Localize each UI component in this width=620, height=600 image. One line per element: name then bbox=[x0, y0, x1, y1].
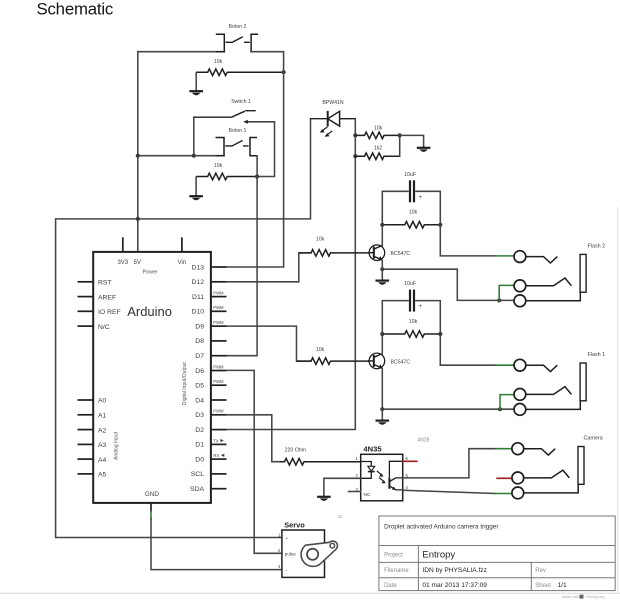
svg-text:1k2: 1k2 bbox=[374, 146, 382, 152]
svg-text:D2: D2 bbox=[195, 427, 204, 434]
wire Q1 emitter down bbox=[381, 261, 383, 270]
frame right line bbox=[617, 207, 619, 593]
wire Q1 collector bbox=[381, 225, 383, 246]
resistor R8 10k Q2 base bbox=[297, 347, 370, 364]
svg-text:4N28: 4N28 bbox=[418, 438, 430, 444]
svg-text:-: - bbox=[286, 568, 288, 574]
svg-text:A1: A1 bbox=[98, 413, 107, 420]
wire green Flash1 ring bbox=[500, 395, 514, 410]
wire divider to ground bbox=[400, 135, 424, 146]
svg-text:+: + bbox=[419, 195, 423, 201]
wire D3 to R9 bbox=[227, 415, 281, 462]
wire pin3 stub bbox=[349, 491, 361, 493]
junction Flash2 ring-sleeve bbox=[497, 298, 501, 302]
svg-text:D4: D4 bbox=[195, 397, 204, 404]
svg-text:D10: D10 bbox=[192, 309, 205, 316]
svg-text:D6: D6 bbox=[195, 368, 204, 375]
wire 5V rail to Switch1/Boton1 bbox=[138, 155, 224, 157]
resistor R1 10k Boton2 pulldown bbox=[196, 59, 283, 76]
svg-text:A4: A4 bbox=[98, 457, 107, 464]
wire opto pin2 to ground bbox=[324, 478, 361, 495]
svg-text:RX: RX bbox=[213, 453, 219, 458]
svg-text:D9: D9 bbox=[195, 323, 204, 330]
svg-text:PWM: PWM bbox=[213, 379, 224, 384]
wire C1 right bbox=[416, 191, 440, 256]
svg-text:10k: 10k bbox=[316, 347, 325, 353]
junction rail-R3 bbox=[353, 133, 357, 137]
svg-text:BC547C: BC547C bbox=[391, 251, 411, 257]
junction C2-R6 left bbox=[380, 332, 384, 336]
svg-text:J1: J1 bbox=[338, 514, 343, 519]
Arduino U1 bbox=[78, 237, 227, 511]
text 4N28 alt label bbox=[418, 438, 430, 444]
svg-text:D11: D11 bbox=[192, 294, 204, 301]
svg-text:10k: 10k bbox=[214, 59, 223, 65]
ground divider bbox=[417, 146, 431, 152]
svg-text:3V3: 3V3 bbox=[117, 260, 128, 266]
svg-text:10uF: 10uF bbox=[404, 281, 416, 287]
wire green Arduino GND bbox=[150, 511, 152, 519]
text Fritzing credit bbox=[562, 595, 605, 600]
photodiode D1 BPW41N bbox=[311, 100, 356, 137]
svg-text:3: 3 bbox=[278, 564, 281, 569]
svg-text:D1: D1 bbox=[195, 442, 204, 449]
svg-text:A3: A3 bbox=[98, 442, 107, 449]
svg-text:10k: 10k bbox=[316, 237, 325, 243]
svg-text:10k: 10k bbox=[214, 163, 223, 169]
svg-text:SDA: SDA bbox=[190, 486, 204, 493]
svg-text:AREF: AREF bbox=[98, 294, 116, 301]
ground opto bbox=[317, 495, 331, 501]
wire 5V net: Boton2 left to rail bbox=[138, 52, 225, 219]
svg-text:A0: A0 bbox=[98, 398, 107, 405]
svg-text:D7: D7 bbox=[195, 353, 204, 360]
wire C1 left bbox=[382, 191, 408, 225]
wire Boton1 right terminal down bbox=[256, 156, 258, 177]
resistor R9 220 Ohm bbox=[280, 447, 361, 465]
svg-text:1: 1 bbox=[355, 456, 358, 461]
ground Q2 emitter bbox=[376, 409, 390, 425]
connector J3 Flash 1 jack bbox=[514, 352, 605, 415]
svg-text:4N35: 4N35 bbox=[363, 445, 382, 454]
svg-text:Arduino: Arduino bbox=[127, 304, 172, 319]
pushbutton Boton 2 bbox=[216, 24, 258, 52]
svg-text:Flash 2: Flash 2 bbox=[588, 243, 606, 249]
wire D9 to R8 bbox=[227, 326, 312, 361]
resistor R3 10k divider bbox=[355, 125, 399, 138]
svg-text:01 mar 2013 17:37:09: 01 mar 2013 17:37:09 bbox=[422, 582, 487, 589]
svg-text:IDN by PHYSALIA.fzz: IDN by PHYSALIA.fzz bbox=[422, 567, 487, 574]
svg-text:Camera: Camera bbox=[584, 436, 603, 442]
svg-text:PWM: PWM bbox=[213, 364, 224, 369]
junction Flash1 ring-sleeve bbox=[498, 407, 502, 411]
svg-text:BPW41N: BPW41N bbox=[322, 100, 344, 106]
svg-text:SCL: SCL bbox=[191, 471, 204, 478]
transistor Q2 BC547C bbox=[368, 353, 410, 369]
svg-text:5V: 5V bbox=[134, 260, 141, 266]
svg-text:RST: RST bbox=[98, 280, 112, 287]
wire Q1 collector net to Flash2 tip bbox=[440, 255, 495, 257]
svg-text:pulse: pulse bbox=[285, 552, 296, 557]
connector J4 Camera jack bbox=[512, 436, 603, 499]
wire Q2 emitter to Flash1 sleeve bbox=[382, 408, 514, 410]
switch Switch 1 bbox=[194, 99, 275, 124]
svg-text:PWM: PWM bbox=[213, 305, 224, 310]
wire Boton2 net down to D13 bbox=[227, 72, 284, 267]
connector J2 Flash 2 jack bbox=[514, 243, 605, 306]
svg-text:Vin: Vin bbox=[178, 260, 187, 266]
wire 5V down to Arduino 5V pin bbox=[137, 219, 139, 252]
ground Q1 emitter bbox=[376, 269, 390, 285]
capacitor C2 10uF bbox=[404, 281, 422, 312]
svg-text:10k: 10k bbox=[374, 125, 383, 131]
wire red opto pin6 stub bbox=[403, 460, 417, 462]
wire Arduino GND to servo minus bbox=[151, 519, 282, 570]
svg-text:Schematic: Schematic bbox=[37, 0, 114, 19]
svg-text:5: 5 bbox=[406, 473, 409, 478]
junction R3-R4 bbox=[398, 133, 402, 137]
wire 5V left branch to servo + bbox=[56, 219, 282, 538]
svg-text:Boton 2: Boton 2 bbox=[229, 24, 247, 30]
svg-text:10k: 10k bbox=[409, 319, 418, 325]
title block bbox=[379, 516, 615, 591]
svg-text:A5: A5 bbox=[98, 472, 107, 479]
wire D12 to R7 bbox=[227, 253, 312, 282]
wire Q1 emitter to Flash2 sleeve bbox=[382, 269, 514, 300]
svg-text:+: + bbox=[285, 537, 288, 542]
wire green camera tip bbox=[496, 448, 512, 450]
wire red camera ring stub bbox=[497, 477, 512, 479]
svg-text:+: + bbox=[419, 304, 423, 310]
svg-text:PWM: PWM bbox=[213, 409, 224, 414]
svg-text:2: 2 bbox=[278, 548, 281, 553]
svg-text:Sheet: Sheet bbox=[535, 583, 551, 589]
svg-text:1/1: 1/1 bbox=[558, 582, 567, 589]
junction Boton1-left bbox=[192, 154, 196, 158]
svg-text:GND: GND bbox=[145, 491, 160, 498]
resistor R2 10k Boton1 pulldown bbox=[196, 163, 257, 180]
svg-text:220 Ohm: 220 Ohm bbox=[285, 447, 306, 453]
optocoupler U2 4N35 bbox=[355, 445, 408, 501]
wire green Flash1 tip bbox=[496, 364, 514, 366]
junction 5V-branch bbox=[136, 217, 140, 221]
svg-text:Filename: Filename bbox=[384, 568, 409, 574]
svg-text:IO REF: IO REF bbox=[98, 309, 121, 316]
transistor Q1 BC547C bbox=[368, 245, 410, 261]
wire 5V right branch to photodiode anode bbox=[138, 119, 311, 219]
svg-text:6: 6 bbox=[406, 456, 409, 461]
junction Q2 emitter bbox=[380, 407, 384, 411]
wire opto pin4 to camera sleeve bbox=[403, 490, 495, 493]
svg-text:10uF: 10uF bbox=[404, 172, 416, 178]
svg-text:Fritzing.org: Fritzing.org bbox=[586, 595, 605, 599]
wire Switch1 common riser bbox=[193, 117, 195, 156]
wire C2 right bbox=[416, 301, 440, 366]
wire Switch1 throw to Boton1 junction bbox=[257, 122, 274, 177]
svg-text:D5: D5 bbox=[195, 383, 204, 390]
svg-text:Servo: Servo bbox=[284, 521, 305, 530]
svg-text:Switch 1: Switch 1 bbox=[231, 99, 251, 105]
wire Q2 collector bbox=[381, 334, 383, 354]
svg-text:D8: D8 bbox=[195, 338, 204, 345]
svg-text:PWM: PWM bbox=[213, 320, 224, 325]
frame bottom line bbox=[0, 592, 620, 594]
svg-text:D13: D13 bbox=[192, 264, 205, 271]
junction C1-R5 left bbox=[380, 223, 384, 227]
svg-text:Project: Project bbox=[384, 553, 403, 559]
pushbutton Boton 1 bbox=[216, 128, 258, 156]
resistor R4 1k2 divider bbox=[355, 146, 399, 160]
svg-text:Date: Date bbox=[384, 583, 397, 589]
wire C2 left bbox=[382, 301, 408, 334]
svg-text:TX: TX bbox=[213, 438, 219, 443]
title text Schematic bbox=[37, 0, 114, 19]
wire D6 to servo pulse bbox=[227, 370, 282, 553]
svg-text:Droplet activated Arduino came: Droplet activated Arduino camera trigger bbox=[384, 524, 499, 531]
svg-text:2: 2 bbox=[355, 473, 358, 478]
wire Boton2 right terminal down bbox=[251, 52, 284, 72]
ground Boton2 R1 bbox=[189, 72, 203, 95]
resistor R7 10k Q1 base bbox=[299, 237, 369, 257]
wire Boton1 net down to D7 bbox=[227, 177, 258, 356]
wire Q2 collector net to Flash1 tip bbox=[440, 364, 496, 366]
junction Boton1-R2 bbox=[255, 174, 259, 178]
wire green Flash2 tip bbox=[495, 255, 514, 257]
wire photodiode cathode rail down to D2 bbox=[227, 119, 356, 430]
junction rail-R4 bbox=[353, 154, 357, 158]
resistor R5 10k Q1 feedback bbox=[382, 210, 440, 229]
text J1 label bbox=[338, 514, 343, 519]
resistor R6 10k Q2 feedback bbox=[382, 319, 440, 338]
wire green Flash2 ring bbox=[499, 285, 514, 300]
wire R3-R4 right join bbox=[399, 135, 401, 156]
svg-text:NC: NC bbox=[364, 492, 371, 498]
svg-text:D12: D12 bbox=[192, 279, 205, 286]
wire opto pin5 to camera tip bbox=[403, 449, 496, 478]
svg-text:D0: D0 bbox=[195, 456, 204, 463]
junction 5V-switch bbox=[136, 154, 140, 158]
ground Boton1 R2 bbox=[189, 177, 203, 201]
svg-text:Digital Input/Output: Digital Input/Output bbox=[182, 362, 188, 405]
junction Boton2-R1 bbox=[282, 70, 286, 74]
svg-text:10k: 10k bbox=[409, 210, 418, 216]
junction C1-R5 right bbox=[438, 223, 442, 227]
svg-text:PWM: PWM bbox=[213, 291, 224, 296]
svg-text:N/C: N/C bbox=[98, 324, 110, 331]
svg-text:Made with: Made with bbox=[562, 595, 579, 599]
svg-text:4: 4 bbox=[406, 485, 409, 490]
wire green camera sleeve bbox=[495, 493, 512, 495]
svg-text:Rev: Rev bbox=[535, 568, 546, 574]
wire Q2 emitter down bbox=[381, 369, 383, 410]
capacitor C1 10uF bbox=[404, 172, 422, 203]
svg-text:BC547C: BC547C bbox=[391, 359, 411, 365]
svg-text:A2: A2 bbox=[98, 427, 107, 434]
svg-text:Boton 1: Boton 1 bbox=[229, 128, 247, 134]
svg-text:D3: D3 bbox=[195, 412, 204, 419]
junction C2-R6 right bbox=[438, 332, 442, 336]
svg-text:Power: Power bbox=[142, 270, 157, 276]
junction Q1 emitter bbox=[380, 267, 384, 271]
servo M1 bbox=[278, 521, 337, 578]
svg-text:Entropy: Entropy bbox=[422, 550, 455, 561]
svg-text:Flash 1: Flash 1 bbox=[588, 352, 606, 358]
svg-text:Analog Input: Analog Input bbox=[113, 431, 119, 460]
